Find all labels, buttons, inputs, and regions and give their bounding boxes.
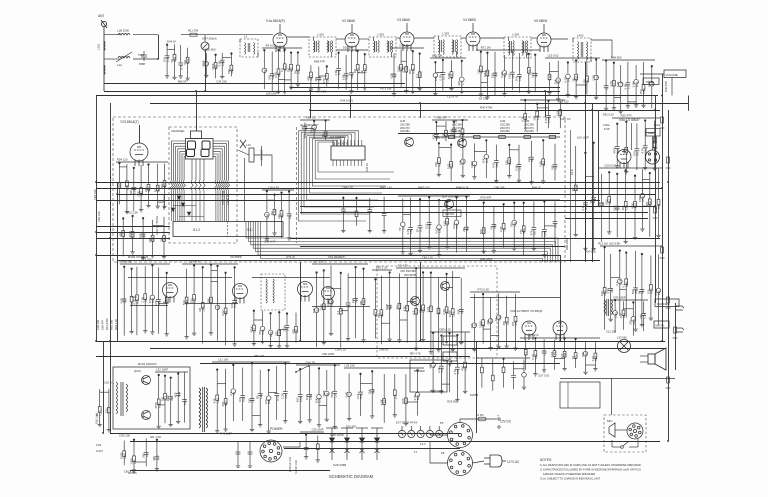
svg-text:560: 560 (296, 397, 300, 402)
svg-text:6.8K: 6.8K (632, 81, 636, 87)
svg-text:C407 1P: C407 1P (560, 117, 571, 121)
svg-text:250: 250 (275, 331, 279, 336)
svg-text:L62 6.8K: L62 6.8K (609, 242, 620, 246)
svg-text:4.7K: 4.7K (442, 309, 446, 315)
svg-text:33K: 33K (326, 301, 330, 306)
junction (584, 102, 586, 104)
coupling network (372, 270, 392, 344)
svg-text:R83 100: R83 100 (254, 354, 265, 358)
svg-text:1M: 1M (637, 290, 641, 295)
svg-text:0.02: 0.02 (540, 231, 544, 237)
component value labels for IF takeoff network (521, 110, 563, 123)
IC pin leads (333, 140, 362, 166)
svg-text:V4 6BE6: V4 6BE6 (463, 18, 476, 22)
svg-text:VOLUME: VOLUME (666, 73, 678, 77)
svg-text:0.02: 0.02 (132, 298, 136, 304)
coil L1A2 vertical (104, 41, 105, 75)
svg-text:R66 5P: R66 5P (178, 80, 187, 84)
svg-text:F2 RX: F2 RX (476, 413, 484, 417)
svg-text:0.01: 0.01 (492, 162, 496, 168)
svg-text:V5a 1/2 6BM7: V5a 1/2 6BM7 (619, 118, 640, 122)
svg-text:C33 4.7K: C33 4.7K (264, 240, 275, 244)
left annotation column (96, 318, 118, 330)
svg-text:C88 10P: C88 10P (494, 186, 505, 190)
svg-text:0.05: 0.05 (499, 226, 503, 232)
wire (396, 37, 400, 39)
svg-text:N235B: N235B (470, 393, 478, 397)
converter bias network (155, 372, 188, 429)
wire drop (545, 91, 547, 117)
wire (336, 38, 345, 40)
svg-text:470K: 470K (202, 60, 206, 67)
svg-text:R27: R27 (554, 222, 558, 228)
svg-text:33K: 33K (434, 162, 438, 167)
transistor Q101 (142, 376, 151, 385)
svg-text:120: 120 (476, 69, 480, 74)
tube V3 6BA6 (400, 23, 414, 51)
wire (640, 361, 648, 363)
svg-text:VR2 10K: VR2 10K (97, 211, 101, 222)
svg-text:117V AC: 117V AC (507, 460, 520, 464)
svg-text:D3 33K: D3 33K (479, 97, 488, 101)
wire bus (290, 238, 660, 240)
wire right bus 4 (675, 303, 677, 370)
svg-text:5P: 5P (415, 229, 419, 233)
svg-text:PHONES: PHONES (657, 302, 670, 306)
svg-text:1M: 1M (511, 322, 515, 327)
svg-text:R24 0.02: R24 0.02 (585, 250, 596, 254)
svg-text:1K: 1K (494, 317, 498, 321)
svg-text:47P: 47P (581, 352, 585, 357)
svg-text:56BP: 56BP (648, 131, 655, 135)
IF transformer L303 (434, 36, 461, 57)
svg-text:L28 4.7K: L28 4.7K (268, 186, 279, 190)
wire (287, 36, 309, 38)
svg-text:10K: 10K (515, 76, 519, 81)
svg-text:C40a: C40a (603, 123, 610, 127)
svg-text:L1B 2000: L1B 2000 (117, 29, 129, 33)
display body outline (186, 139, 214, 160)
wire (640, 73, 664, 75)
wire drop (350, 96, 352, 119)
speaker SP (648, 348, 666, 370)
component value labels for regulator network (296, 361, 338, 432)
component value labels for meter shunt network (202, 48, 234, 84)
svg-text:R46: R46 (614, 312, 618, 318)
svg-text:R25 47P: R25 47P (621, 114, 632, 118)
svg-text:0.1: 0.1 (411, 310, 415, 314)
svg-text:2.2K: 2.2K (281, 393, 285, 399)
svg-text:47K: 47K (291, 329, 295, 334)
svg-text:L303: L303 (443, 32, 450, 36)
svg-text:K1-3: K1-3 (420, 442, 426, 446)
svg-text:6.8K: 6.8K (531, 72, 535, 78)
resistor chain R45-R49 (434, 136, 560, 139)
RH2 network (262, 190, 294, 241)
wire bus (96, 238, 170, 240)
svg-text:470K: 470K (322, 390, 326, 397)
wire amp rail (398, 133, 560, 135)
svg-text:0.1: 0.1 (615, 281, 619, 285)
V9 grid network (120, 264, 170, 336)
svg-text:L58 100P: L58 100P (266, 92, 278, 96)
svg-text:1K: 1K (571, 356, 575, 360)
svg-text:120: 120 (582, 79, 586, 84)
svg-text:G45: G45 (452, 119, 458, 123)
svg-text:2.2K: 2.2K (592, 75, 596, 81)
svg-text:0.01: 0.01 (527, 156, 531, 162)
pilot lamp PL (618, 340, 631, 353)
svg-text:2.2K: 2.2K (141, 297, 145, 303)
svg-text:C20 0.02: C20 0.02 (604, 164, 616, 168)
svg-text:5P: 5P (256, 395, 260, 399)
svg-text:R101 2SD471: R101 2SD471 (138, 362, 157, 366)
junction (109, 237, 111, 239)
svg-text:C4 0.05: C4 0.05 (305, 361, 315, 365)
component value labels for audio driver network (597, 164, 661, 246)
svg-text:4.7K: 4.7K (544, 117, 548, 123)
reset network (432, 119, 468, 141)
wire (480, 37, 504, 39)
wire (185, 303, 238, 305)
svg-text:K2-8: K2-8 (570, 169, 574, 175)
svg-text:L58 10K: L58 10K (432, 54, 443, 58)
svg-text:0.047uF C31: 0.047uF C31 (288, 456, 292, 472)
svg-text:5P: 5P (572, 78, 576, 82)
wire (133, 58, 158, 60)
svg-text:6.8K: 6.8K (514, 165, 518, 171)
svg-text:100P: 100P (305, 394, 309, 401)
meter M1 S-87 500uA (201, 42, 209, 50)
svg-text:C6 6.8K: C6 6.8K (399, 44, 409, 48)
svg-text:0.05: 0.05 (613, 205, 617, 211)
wire bus (284, 448, 460, 450)
wire (551, 38, 568, 40)
wire left bus lower (103, 341, 105, 433)
svg-text:1K: 1K (589, 200, 593, 204)
junction (299, 340, 301, 342)
wire bus (118, 194, 655, 196)
IF transformer L304 (504, 37, 531, 58)
svg-text:PG3 1W: PG3 1W (380, 87, 392, 91)
wire (204, 50, 206, 52)
svg-text:0.05: 0.05 (218, 61, 222, 67)
S-meter switch network (396, 268, 465, 355)
wire (531, 37, 537, 39)
svg-text:100: 100 (190, 298, 194, 303)
svg-text:D33: D33 (126, 184, 130, 190)
boxed label MSTN7 (443, 210, 461, 217)
svg-text:C44 0.001: C44 0.001 (340, 99, 353, 103)
svg-text:0.05: 0.05 (406, 228, 410, 234)
svg-text:0.1: 0.1 (280, 67, 284, 71)
wire bus (96, 226, 170, 228)
svg-text:R70 0.05: R70 0.05 (478, 288, 490, 292)
wire (173, 205, 196, 207)
tube Y23 6BL8(T) (130, 143, 148, 166)
boxed label PHONES (655, 299, 679, 307)
wire drop (420, 103, 422, 118)
wire (261, 146, 263, 166)
svg-text:L57 4.7K: L57 4.7K (313, 260, 324, 264)
svg-text:R48 220/2: R48 220/2 (480, 257, 493, 261)
wire (104, 34, 120, 36)
svg-text:100P: 100P (166, 395, 170, 402)
svg-text:4.7K: 4.7K (630, 203, 634, 209)
T1 windings (199, 387, 208, 432)
component value labels for reset network (432, 116, 465, 140)
svg-text:120: 120 (247, 398, 251, 403)
junction (654, 109, 656, 111)
wire (252, 277, 330, 279)
wire drop (420, 262, 422, 341)
wire (671, 78, 673, 96)
junction (309, 90, 311, 92)
svg-text:560: 560 (408, 69, 412, 74)
svg-text:0.1: 0.1 (336, 310, 340, 314)
relay RL1 contact boxes (443, 336, 457, 345)
svg-text:2SC367B: 2SC367B (404, 273, 416, 277)
svg-text:100P: 100P (479, 321, 483, 328)
CT1 coils (266, 279, 274, 303)
svg-text:1) ALL RESISTORS ARE IN OHMS A: 1) ALL RESISTORS ARE IN OHMS AND 1/4 WAT… (540, 463, 641, 467)
svg-text:MIC: MIC (607, 419, 613, 423)
svg-text:33K: 33K (639, 314, 643, 319)
junction (661, 95, 663, 97)
svg-text:470K: 470K (128, 231, 132, 238)
svg-text:0.01: 0.01 (442, 220, 446, 226)
socket bypass caps (236, 441, 253, 467)
svg-text:100P: 100P (120, 452, 124, 459)
svg-text:L35 10K: L35 10K (345, 364, 356, 368)
svg-text:3) (+) SUBJECT TO CHANGE IN IN: 3) (+) SUBJECT TO CHANGE IN INDIVIDUAL U… (540, 477, 600, 481)
svg-text:5P: 5P (398, 227, 402, 231)
svg-text:C8 100P: C8 100P (260, 149, 264, 160)
muting network (610, 299, 648, 335)
svg-text:0.02: 0.02 (446, 163, 450, 169)
svg-text:120: 120 (264, 399, 268, 404)
relay network (430, 332, 470, 402)
svg-text:S-0047 C32: S-0047 C32 (294, 460, 298, 474)
svg-text:R44 10: R44 10 (365, 163, 369, 172)
output stage network (520, 337, 600, 376)
svg-text:R68 47P: R68 47P (314, 60, 325, 64)
wire drop (476, 341, 478, 433)
component value labels for clock network (300, 116, 328, 138)
display segment wiring left fan (172, 141, 186, 180)
svg-text:470K: 470K (249, 326, 253, 333)
junction (116, 193, 118, 195)
wire (133, 34, 158, 36)
AVC network (478, 200, 560, 257)
svg-text:C33: C33 (96, 443, 102, 447)
svg-text:0.1: 0.1 (229, 391, 233, 395)
wire (470, 297, 560, 299)
wire (296, 127, 298, 243)
svg-text:C29 100: C29 100 (96, 319, 100, 330)
component value labels for coupling network (374, 266, 392, 352)
svg-text:100P: 100P (319, 304, 323, 311)
coil L1A (118, 56, 130, 58)
svg-text:560: 560 (183, 59, 187, 64)
svg-text:250: 250 (462, 227, 466, 232)
svg-text:MSTN7: MSTN7 (445, 212, 455, 216)
svg-text:R461 150: R461 150 (380, 186, 392, 190)
svg-text:0.05: 0.05 (397, 66, 401, 72)
antenna input network C1 C2 R1 (165, 44, 190, 81)
wire bus (96, 356, 470, 358)
svg-text:VTa 6DH8(T): VTa 6DH8(T) (328, 255, 346, 259)
svg-text:0.1: 0.1 (395, 305, 399, 309)
svg-text:D68 560: D68 560 (611, 56, 622, 60)
svg-text:10K: 10K (368, 389, 372, 394)
svg-text:D2: D2 (347, 304, 351, 308)
svg-text:D69: D69 (448, 361, 452, 367)
AF takeoff chain (612, 118, 660, 174)
wire (283, 441, 300, 447)
svg-text:D22: D22 (269, 331, 273, 337)
junction (349, 95, 351, 97)
svg-text:0.05: 0.05 (310, 127, 314, 133)
wire bus (150, 348, 665, 350)
svg-text:10K: 10K (621, 205, 625, 210)
fuse F2 (473, 417, 495, 421)
jack J3 (676, 306, 684, 310)
svg-text:EXT SP PA P4 RX: EXT SP PA P4 RX (396, 421, 417, 425)
junction (109, 340, 111, 342)
svg-text:47K: 47K (502, 321, 506, 326)
svg-text:L1A: L1A (117, 63, 122, 67)
routing maze around IC (298, 131, 394, 221)
filter capacitor bank (344, 368, 424, 426)
component value labels for V9 plate network (182, 260, 237, 316)
wire right bus 3 (668, 110, 670, 441)
wire drop (598, 110, 600, 206)
svg-text:2.2K: 2.2K (137, 191, 141, 197)
svg-text:Y23 6BL8(T): Y23 6BL8(T) (120, 120, 139, 124)
svg-text:L304: L304 (513, 33, 520, 37)
svg-text:250: 250 (639, 89, 643, 94)
svg-text:C58: C58 (266, 213, 270, 219)
component value labels for VTa network (312, 260, 366, 352)
relay box K1 (560, 382, 600, 408)
component value labels for rectifier filter network (600, 242, 661, 334)
dashed coil box CT1 (261, 274, 285, 310)
wire (461, 37, 466, 39)
svg-text:4.7K: 4.7K (453, 369, 457, 375)
svg-text:33K: 33K (629, 320, 633, 325)
wire (128, 277, 232, 279)
socket accessory socket J2 (448, 451, 473, 476)
svg-text:C50 V005: C50 V005 (322, 352, 334, 356)
wire (139, 125, 141, 143)
component value labels for S-meter switch network (395, 264, 464, 356)
svg-text:R40 470K: R40 470K (480, 106, 493, 110)
7-segment display window tab (191, 131, 202, 139)
svg-text:100: 100 (163, 57, 167, 62)
wire (430, 434, 448, 436)
svg-text:L301: L301 (318, 33, 325, 37)
detector network (545, 58, 600, 101)
wire ground rail (104, 83, 405, 85)
junction (654, 205, 656, 207)
transistor Q16 (458, 139, 467, 148)
svg-text:C24 47K: C24 47K (189, 260, 200, 264)
electrolytic can C46 (646, 150, 660, 164)
svg-text:D3 4.7K: D3 4.7K (398, 264, 408, 268)
component value labels for V4 mixer network (476, 46, 537, 101)
svg-text:47P: 47P (322, 78, 326, 83)
svg-text:R49 220/2: R49 220/2 (565, 237, 569, 250)
tube V1a 6BL8(P) (273, 24, 287, 52)
svg-text:D92: D92 (118, 184, 122, 190)
svg-text:0.01: 0.01 (426, 306, 430, 312)
wire (254, 155, 272, 182)
svg-text:10K: 10K (458, 160, 462, 165)
svg-text:0.047: 0.047 (96, 449, 103, 453)
svg-text:0.05: 0.05 (438, 74, 442, 80)
svg-text:L52 0.02: L52 0.02 (548, 54, 559, 58)
microphone dashed box (604, 415, 646, 452)
svg-text:0.05: 0.05 (389, 73, 393, 79)
V2 bias network (336, 50, 368, 93)
svg-text:100P: 100P (385, 304, 389, 311)
converter transformer T101 (116, 382, 128, 416)
outer dashed enclosure (113, 117, 565, 262)
svg-text:4.7K: 4.7K (609, 81, 613, 87)
wire (640, 355, 648, 357)
junction (591, 109, 593, 111)
svg-text:470K: 470K (613, 147, 617, 154)
svg-text:L33 560: L33 560 (617, 336, 627, 340)
tube V10 (233, 284, 248, 304)
svg-text:47K: 47K (461, 366, 465, 371)
svg-text:470K: 470K (211, 63, 215, 70)
svg-text:V2 6BA6: V2 6BA6 (342, 19, 355, 23)
svg-text:47K: 47K (312, 308, 316, 313)
svg-text:250: 250 (377, 313, 381, 318)
VTa network (312, 264, 368, 348)
svg-text:100P: 100P (448, 310, 452, 317)
svg-text:L302: L302 (378, 33, 385, 37)
svg-text:1M: 1M (198, 307, 202, 312)
svg-text:47P: 47P (174, 392, 178, 397)
wire (158, 35, 160, 59)
wire bus (300, 212, 648, 214)
svg-text:33K: 33K (457, 81, 461, 86)
meter shunt network (204, 53, 233, 79)
svg-text:1M: 1M (159, 237, 163, 242)
wire drop (300, 262, 302, 341)
wire bus (200, 363, 560, 365)
component value labels for V23 lower network (119, 211, 167, 262)
routing fan to channel switch (246, 221, 558, 262)
junction (419, 340, 421, 342)
wire bus (118, 260, 600, 262)
svg-text:100: 100 (632, 151, 636, 156)
dashed converter box (377, 266, 497, 358)
svg-text:0.02: 0.02 (563, 77, 567, 83)
svg-text:R54 120: R54 120 (117, 158, 128, 162)
divider chain (574, 142, 597, 251)
wire bus (96, 182, 660, 184)
tube V2 6BA6 (345, 24, 359, 52)
svg-text:2SC368: 2SC368 (400, 122, 410, 126)
wire right bus 2 (662, 74, 664, 341)
volume feed network (602, 60, 655, 114)
svg-text:560: 560 (227, 69, 231, 74)
wire drop (592, 103, 594, 262)
